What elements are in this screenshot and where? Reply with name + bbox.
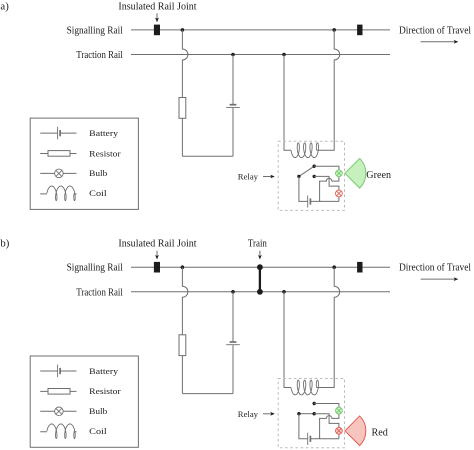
battery B1 (track circuit supply) (230, 104, 237, 106)
node: relay back contact (red circuit) (313, 412, 316, 415)
wire: front contact to green bulb (314, 166, 339, 170)
insulated rail joint IRJ2 (right, on signalling rail) (357, 25, 362, 36)
svg-text:Relay: Relay (238, 172, 259, 182)
wire: resistor branch (hops over traction rail) (182, 267, 188, 335)
relay armature (movable contact from pivot) (299, 413, 314, 415)
relay coil L1 (291, 143, 319, 158)
arrow: pointer to relay (263, 176, 272, 178)
svg-text:Resistor: Resistor (89, 149, 121, 158)
svg-text:Traction Rail: Traction Rail (76, 287, 123, 299)
insulated rail joint IRJ2 (right, on signalling rail) (357, 262, 362, 273)
legend battery symbol (40, 132, 76, 134)
node: relay front contact (green circuit) (313, 165, 316, 168)
node: traction rail to battery branch (231, 53, 235, 57)
arrow: pointer to insulated rail joint (156, 251, 158, 257)
relay armature (movable contact from pivot) (299, 166, 314, 176)
legend bulb symbol (40, 172, 76, 174)
relay coil L1 (291, 380, 319, 395)
svg-text:Battery: Battery (89, 129, 119, 138)
battery B1 (track circuit supply) (230, 341, 237, 343)
svg-text:Traction Rail: Traction Rail (76, 49, 123, 61)
wire: resistor branch (hops over traction rail) (182, 30, 188, 98)
svg-text:Insulated Rail Joint: Insulated Rail Joint (118, 0, 196, 12)
wire: lamp-circuit bottom rail (battery to bulb returns) (310, 200, 339, 202)
wire: back contact to red bulb (steps down, under hop) (314, 176, 339, 190)
svg-text:Signalling Rail: Signalling Rail (67, 262, 123, 274)
svg-text:Coil: Coil (89, 427, 107, 436)
wire: resistor to bottom return (181, 118, 183, 156)
wire: signalling rail to relay coil (right lead, hops over traction rail) (317, 30, 340, 150)
train axle (shorting both rails) (259, 267, 261, 292)
red signal beam (lit: Red aspect) (345, 416, 366, 446)
arrow: pointer to relay (263, 413, 272, 415)
wire: bottom return between resistor and battery (182, 393, 233, 395)
svg-text:Battery: Battery (89, 367, 119, 376)
svg-text:Signalling Rail: Signalling Rail (67, 24, 123, 36)
wire: green bulb return (hops over red-bulb wire) (320, 177, 339, 202)
arrow: pointer to train axle (259, 251, 261, 257)
svg-text:Red: Red (372, 427, 388, 438)
svg-text:Relay: Relay (238, 409, 259, 419)
svg-text:Bulb: Bulb (89, 169, 107, 178)
svg-text:Green: Green (366, 170, 391, 181)
node: traction rail to battery branch (231, 290, 235, 294)
svg-text:Bulb: Bulb (89, 407, 107, 416)
svg-text:Coil: Coil (89, 189, 107, 198)
wire: red bulb return (338, 434, 340, 438)
wire: resistor to bottom return (181, 356, 183, 394)
node: relay armature pivot (297, 412, 300, 415)
wire: red bulb return (338, 197, 340, 201)
red signal bulb (336, 427, 343, 434)
wire: battery B1 to bottom return (232, 345, 234, 394)
node: traction rail to relay coil branch (282, 53, 286, 57)
resistor R1 (track circuit limiting resistor) (179, 335, 186, 356)
green signal beam (lit: Green aspect) (345, 158, 366, 188)
legend coil symbol (40, 193, 76, 195)
node: signalling rail to relay branch (332, 265, 336, 269)
green signal bulb (336, 170, 343, 177)
wire: battery B1 to bottom return (232, 108, 234, 157)
legend box (30, 356, 138, 447)
node: train wheel on signalling rail (257, 264, 263, 270)
node: signalling rail to relay branch (332, 28, 336, 32)
resistor R1 (track circuit limiting resistor) (179, 98, 186, 119)
insulated rail joint IRJ1 (left, on signalling rail) (154, 262, 160, 273)
svg-text:Direction of Travel: Direction of Travel (399, 24, 471, 36)
battery B2 (signal lamp supply) (307, 195, 309, 207)
wire: traction rail to battery B1 (232, 55, 234, 105)
wire: traction rail (131, 291, 390, 293)
node: signalling rail to resistor branch (181, 265, 185, 269)
legend battery symbol (40, 370, 76, 372)
node: train wheel on traction rail (257, 289, 263, 295)
svg-text:Resistor: Resistor (89, 387, 121, 396)
arrow: direction of travel (421, 41, 456, 43)
node: relay armature pivot (297, 175, 300, 178)
svg-text:Direction of Travel: Direction of Travel (399, 262, 471, 274)
wire: traction rail to battery B1 (232, 292, 234, 342)
wire: back contact to red bulb (steps down, under hop) (314, 414, 339, 428)
wire: traction rail to relay coil (left lead) (284, 292, 291, 388)
wire: green bulb return (hops over red-bulb wire) (320, 414, 339, 439)
node: relay back contact (red circuit) (313, 175, 316, 178)
wire: signalling rail to relay coil (right lead, hops over traction rail) (317, 267, 340, 387)
svg-text:(a): (a) (0, 0, 9, 12)
green signal bulb (336, 407, 343, 414)
relay enclosure (dashed box) (278, 379, 344, 448)
battery B2 (signal lamp supply) (307, 433, 309, 445)
arrow: direction of travel (421, 278, 456, 280)
relay enclosure (dashed box) (278, 141, 344, 210)
wire: pivot to lamp-circuit bottom rail (299, 414, 308, 439)
wire: traction rail to relay coil (left lead) (284, 55, 291, 151)
svg-text:Insulated Rail Joint: Insulated Rail Joint (118, 238, 196, 250)
node: signalling rail to resistor branch (181, 28, 185, 32)
wire: signalling rail (131, 29, 390, 31)
legend coil symbol (40, 431, 76, 433)
svg-text:(b): (b) (0, 238, 10, 250)
insulated rail joint IRJ1 (left, on signalling rail) (154, 25, 160, 36)
svg-text:Train: Train (248, 238, 267, 250)
wire: bottom return between resistor and battery (182, 155, 233, 157)
wire: traction rail (131, 54, 390, 56)
node: relay front contact (green circuit) (313, 402, 316, 405)
legend box (30, 118, 138, 209)
wire: lamp-circuit bottom rail (battery to bulb returns) (310, 438, 339, 440)
legend resistor symbol (40, 390, 76, 392)
wire: signalling rail (131, 266, 390, 268)
wire: pivot to lamp-circuit bottom rail (299, 176, 308, 201)
node: traction rail to relay coil branch (282, 290, 286, 294)
legend bulb symbol (40, 410, 76, 412)
red signal bulb (336, 190, 343, 197)
arrow: pointer to insulated rail joint (156, 13, 158, 19)
wire: front contact to green bulb (314, 404, 339, 408)
legend resistor symbol (40, 153, 76, 155)
